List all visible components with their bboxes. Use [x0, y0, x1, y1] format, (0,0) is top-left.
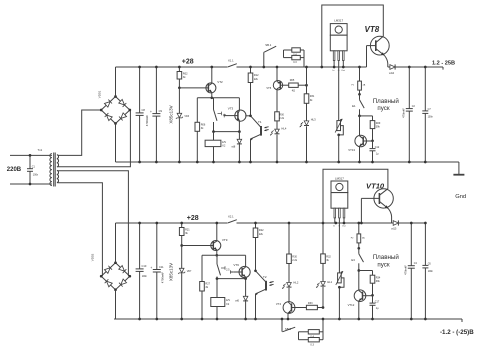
capacitor C2 470mkF [402, 66, 416, 164]
transistor VT12 [348, 271, 373, 321]
relay coil K2 bottom [211, 279, 231, 321]
svg-text:VT8: VT8 [365, 25, 380, 34]
ground symbol [453, 162, 464, 175]
wire secondary W2 bottom to bottom bridge left [58, 183, 103, 277]
wire shunts to bus [303, 50, 305, 67]
svg-text:пуск: пуск [377, 261, 389, 268]
svg-text:C11: C11 [159, 265, 164, 269]
svg-text:C10: C10 [142, 264, 147, 268]
svg-text:VT3: VT3 [228, 107, 234, 111]
svg-text:R00: R00 [279, 114, 284, 117]
svg-text:VD7: VD7 [187, 270, 192, 273]
switch SB.1 [263, 43, 276, 53]
shunt resistor 0.3 bottom [299, 332, 324, 347]
wire bottom box top edge [202, 254, 246, 256]
svg-text:R29: R29 [376, 122, 381, 125]
LED HL3 [300, 118, 316, 164]
svg-text:VT9: VT9 [222, 238, 228, 242]
svg-text:vd8: vd8 [231, 146, 236, 149]
fuse F2 [351, 222, 365, 250]
shunt resistor 0.4 bottom [299, 330, 324, 339]
svg-text:C8: C8 [142, 108, 146, 112]
wire ground mid bus [116, 161, 459, 163]
switch contact K2.5 [217, 255, 230, 278]
wire switch to VT6 emitter link [216, 277, 247, 280]
wire box top edge [197, 97, 239, 99]
diode vd6 [235, 296, 248, 320]
wire bottom loop to LM317-2 input [323, 169, 388, 223]
shunt resistor 0.3 [284, 50, 305, 64]
switch E3 soft start [351, 248, 363, 272]
svg-text:0.3: 0.3 [310, 343, 314, 346]
label 220V mains [7, 167, 22, 173]
svg-text:VT6: VT6 [233, 263, 239, 267]
regulator U2 LM317 [331, 177, 348, 228]
svg-text:VD01: VD01 [98, 90, 102, 98]
svg-text:X85c13V: X85c13V [168, 105, 173, 123]
svg-text:C12: C12 [375, 146, 380, 149]
svg-text:R30: R30 [292, 255, 297, 258]
svg-text:100n: 100n [142, 275, 148, 278]
svg-text:HL3: HL3 [311, 118, 316, 122]
svg-text:470mkF: 470mkF [402, 108, 406, 118]
resistor R29 [360, 116, 381, 142]
svg-text:100n: 100n [428, 116, 434, 119]
svg-text:VD02: VD02 [91, 253, 95, 261]
transformer Tv1 [38, 148, 59, 186]
bridge rectifier VD01 [98, 90, 132, 124]
svg-text:R31: R31 [310, 95, 315, 98]
label Gnd [455, 194, 466, 200]
wire bottom +28 bus [116, 222, 426, 224]
wire VT3 base link [224, 114, 227, 118]
capacitor C10 [136, 222, 148, 321]
svg-text:X85c13V: X85c13V [168, 263, 173, 281]
wire secondary W1 bottom to top bridge right [58, 110, 131, 167]
wire +28 top bus [116, 66, 367, 68]
resistor R06 on left branch [195, 98, 206, 164]
trimmer pot bottom [336, 223, 344, 320]
svg-text:vd6: vd6 [235, 299, 240, 302]
resistor R02 [177, 66, 188, 90]
svg-text:4Ω: 4Ω [292, 90, 295, 93]
transistor VT4 [276, 302, 307, 321]
svg-text:R32: R32 [326, 255, 331, 258]
label -1.2 - (-25)V output [440, 329, 474, 336]
svg-text:+: + [150, 110, 152, 114]
svg-text:T2: T2 [263, 275, 267, 279]
svg-text:VT5: VT5 [266, 86, 271, 90]
label X85c13V bottom [168, 263, 173, 281]
svg-text:Tv1: Tv1 [38, 148, 43, 152]
label soft start bottom [373, 254, 400, 268]
wire bottom bridge + to bus [115, 223, 117, 263]
wire secondary W2 top to bottom bridge right [58, 171, 130, 276]
zener diode VD7 [178, 246, 192, 321]
wire negative output rail [114, 319, 462, 322]
svg-text:R06: R06 [201, 123, 206, 126]
svg-text:4700mkF: 4700mkF [145, 115, 149, 127]
svg-text:0.3: 0.3 [293, 61, 297, 64]
svg-text:T1: T1 [258, 120, 262, 124]
transistor VT13 [348, 116, 372, 163]
optocoupler phototransistor T1 [249, 116, 268, 164]
wire top bridge + to +28 bus [115, 67, 117, 97]
resistor R30 [287, 222, 298, 283]
label soft start top [373, 98, 400, 112]
diode vd14 [388, 64, 397, 75]
svg-text:R22: R22 [259, 229, 264, 232]
capacitor C1 across primary [27, 154, 39, 185]
svg-text:R33: R33 [308, 302, 313, 305]
fuse F1 [351, 66, 365, 96]
label X85c13V [168, 105, 173, 123]
svg-text:-1.2 - (-25)В: -1.2 - (-25)В [440, 329, 474, 336]
transistor VT2 [179, 66, 223, 100]
svg-text:E1: E1 [352, 104, 356, 108]
transistor VT9 [182, 222, 228, 257]
svg-text:SB.3: SB.3 [285, 327, 292, 331]
svg-text:HL1: HL1 [327, 280, 332, 284]
transistor VT10 [360, 181, 393, 224]
svg-text:100n: 100n [33, 174, 39, 177]
wire primary top [10, 154, 51, 156]
resistor R05 [280, 79, 308, 92]
svg-text:пуск: пуск [377, 105, 389, 112]
diode vd15 [391, 220, 398, 230]
capacitor C17 [370, 295, 380, 320]
resistor R33 [306, 302, 324, 309]
label +28 top [182, 59, 194, 66]
svg-text:HL2: HL2 [293, 281, 298, 285]
resistor R32 [321, 222, 332, 282]
resistor R31 [304, 66, 315, 121]
transistor VT5 [266, 66, 282, 90]
resistor R27 [200, 255, 211, 320]
svg-text:2.5: 2.5 [226, 269, 230, 272]
svg-text:VT4: VT4 [276, 302, 282, 306]
LED HL4 [270, 126, 287, 163]
wire positive output rail [397, 67, 444, 70]
svg-text:R05: R05 [290, 79, 295, 82]
svg-text:E3: E3 [351, 258, 355, 262]
wire secondary W1 top to top bridge left [58, 110, 102, 155]
svg-text:4700mkF: 4700mkF [160, 272, 164, 284]
svg-text:vd15: vd15 [391, 228, 397, 231]
LED HL1 [316, 280, 332, 308]
label 1.2 - 25V output [432, 60, 455, 66]
svg-text:LM317: LM317 [334, 18, 343, 22]
svg-text:VT12: VT12 [348, 303, 355, 307]
svg-text:+: + [150, 266, 152, 270]
svg-text:1.2 - 25В: 1.2 - 25В [432, 60, 455, 66]
svg-text:Gnd: Gnd [455, 194, 466, 200]
optocoupler phototransistor T2 [254, 271, 273, 321]
relay coil K2 [205, 132, 226, 164]
shunt resistor 0.4 [284, 48, 305, 57]
capacitor C6 100n [422, 222, 433, 321]
svg-text:K1.1: K1.1 [228, 59, 234, 63]
svg-text:+28: +28 [182, 59, 194, 66]
capacitor C11 4700mkF [150, 222, 164, 321]
svg-text:470mkF: 470mkF [404, 265, 408, 275]
wire bottom bridge - to negative rail [115, 290, 117, 319]
svg-text:HL4: HL4 [281, 126, 286, 130]
svg-text:Out: Out [342, 225, 346, 228]
svg-text:C17: C17 [375, 300, 380, 303]
svg-text:220В: 220В [7, 167, 22, 173]
svg-text:12V: 12V [226, 299, 231, 302]
wire switch to VT3 emitter link [212, 130, 241, 133]
svg-text:100n: 100n [428, 270, 434, 273]
transistor VT8 [365, 25, 390, 67]
bridge rectifier VD02 [91, 253, 132, 291]
wire primary bottom [10, 183, 51, 185]
svg-text:Плавный: Плавный [373, 98, 400, 105]
svg-text:Out: Out [341, 69, 345, 72]
svg-text:LM317: LM317 [335, 177, 344, 181]
resistor R12 [248, 66, 259, 118]
regulator U1 LM317 [330, 18, 347, 71]
svg-text:2.2k: 2.2k [279, 117, 284, 120]
LED HL2 [282, 281, 299, 302]
resistor R00 [275, 90, 285, 129]
svg-text:R12: R12 [254, 74, 259, 77]
transistor VT3 [227, 98, 246, 140]
switch contact K1.5 [214, 98, 227, 132]
wire shunts to rail bottom [322, 318, 325, 340]
capacitor C12 [370, 141, 380, 164]
svg-text:SB.1: SB.1 [265, 43, 272, 47]
switch SB.3 shunt selector bottom [281, 318, 296, 332]
wire VT3 collector to T1 column [245, 115, 250, 117]
svg-text:R27: R27 [205, 283, 210, 286]
switch E1 soft start [352, 94, 364, 117]
resistor R22 [253, 222, 264, 273]
svg-text:C9: C9 [159, 109, 163, 113]
zener diode VD3 [176, 88, 190, 164]
label +28 bottom [187, 215, 199, 222]
svg-text:VT2: VT2 [217, 80, 223, 84]
diode vd8 [231, 139, 242, 163]
capacitor C7 100n [422, 66, 433, 164]
svg-text:R21: R21 [185, 229, 190, 232]
resistor R34 [359, 271, 381, 297]
switch K2.1 [228, 215, 237, 223]
wire VT6 base link [230, 270, 233, 274]
svg-text:2.2k: 2.2k [292, 259, 297, 262]
capacitor C9 [150, 66, 162, 164]
transistor VT6 [233, 255, 250, 296]
switch K1.1 [228, 59, 237, 67]
wire top bridge - to ground bus [115, 124, 117, 163]
svg-text:VT13: VT13 [348, 148, 355, 152]
svg-text:R34: R34 [376, 277, 381, 280]
svg-text:R02: R02 [183, 73, 188, 76]
svg-text:K2.1: K2.1 [228, 215, 234, 219]
wire top loop to LM317 input [320, 5, 383, 68]
svg-text:+28: +28 [187, 215, 199, 222]
svg-text:vd14: vd14 [389, 72, 395, 75]
trimmer pot top [335, 67, 343, 163]
capacitor C4 470mkF [404, 222, 418, 321]
wire SB.1 drop to bus [262, 53, 265, 68]
svg-text:VT10: VT10 [366, 181, 385, 190]
capacitor C8 4700mkF [136, 66, 149, 164]
svg-text:Плавный: Плавный [373, 254, 400, 261]
svg-text:VD3: VD3 [184, 115, 189, 118]
resistor R21 [179, 222, 190, 247]
